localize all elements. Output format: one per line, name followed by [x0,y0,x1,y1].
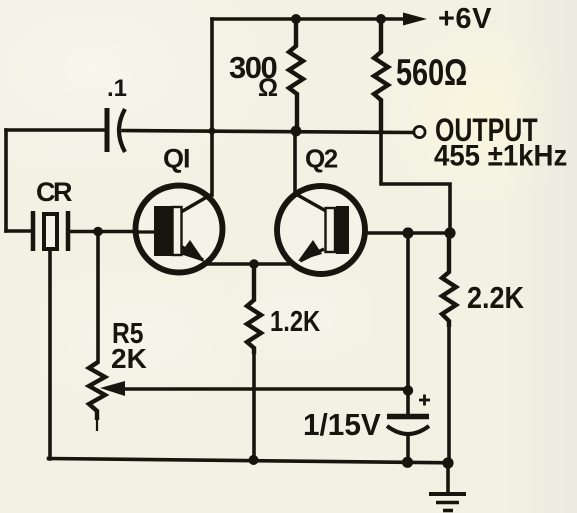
node 300 bottom [291,126,302,137]
svg-text:560Ω: 560Ω [396,53,467,94]
resistor 560 ohm zigzag [374,19,388,133]
node rail-300 [291,14,301,24]
svg-text:.1: .1 [107,75,127,102]
transistor Q2 emitter arrow [298,240,322,261]
svg-text:2K: 2K [111,343,147,374]
node rail-cap [402,457,413,468]
capacitor .1 curved plate [119,109,125,152]
transistor Q2 base bar black [336,206,349,254]
node rail-1.2K [249,455,259,465]
wire 2.2K bottom lead [447,327,451,464]
wire 560 bottom to output loop [381,133,450,233]
resistor 1.2K zigzag [247,264,261,354]
transistor Q2 circle [277,186,365,274]
electrolytic capacitor top plate [387,414,429,420]
ground symbol [429,494,466,511]
wire electrolytic bottom stub [406,434,410,463]
electrolytic capacitor plus sign [419,395,430,406]
crystal CR left plate [31,211,36,251]
svg-text:455 ±1kHz: 455 ±1kHz [434,139,567,172]
transistor Q2 emitter stroke [300,249,324,261]
wire electrolytic top lead [406,233,410,414]
wire R5 top lead [96,232,100,363]
wire emitter rail Q1-Q2 [204,262,292,266]
svg-text:QI: QI [163,144,190,174]
wire ground stub [446,464,450,492]
transistor Q2 collector stroke [294,193,326,211]
potentiometer R5 wiper arrow [100,381,125,396]
wire crystal right lead to Q1 base [71,230,156,234]
node rail-560 [376,14,386,24]
node Q2 base-2.2K [444,227,455,238]
capacitor .1 left plate [105,108,110,152]
wire Q2 collector riser [293,131,297,191]
electrolytic capacitor curved plate [387,426,429,434]
supply arrow +6V [403,13,427,26]
wire crystal case to bottom rail [48,250,52,459]
crystal CR right plate [66,211,71,251]
node emitter-1.2K [249,259,259,269]
node rail-ground [442,457,453,468]
svg-text:CR: CR [36,177,72,207]
wire output line horizontal [6,128,104,132]
wire left loop vertical [4,130,8,231]
transistor Q1 emitter stroke [182,247,203,260]
transistor Q1 collector stroke [181,194,212,212]
node wiper-cap [403,385,413,395]
wire 1.2K bottom lead [252,354,256,461]
transistor Q1 base bar white stripe [173,207,182,255]
svg-text:1.2K: 1.2K [270,305,320,338]
svg-text:Ω: Ω [258,74,278,102]
resistor 2.2K zigzag [442,233,456,327]
resistor 300 ohm zigzag [289,19,303,131]
wire top rail +6V [212,17,406,21]
wire bottom ground rail [49,459,449,463]
wire Q2 base line [349,231,450,235]
svg-text:2.2K: 2.2K [467,281,524,315]
wire crystal left lead [6,229,30,233]
node Q1 collector-output line [208,127,215,134]
svg-text:+6V: +6V [438,3,492,35]
svg-text:1/15V: 1/15V [303,407,381,442]
node Q2 base-cap [402,227,413,238]
transistor Q1 base bar black [154,206,173,256]
transistor Q1 emitter arrow [180,240,205,262]
transistor Q1 circle [136,186,223,273]
potentiometer R5 zigzag [89,362,105,431]
output terminal circle [414,126,425,137]
transistor Q2 base bar white stripe [326,208,336,252]
transistor Q1 base lead inside [137,230,154,233]
wire R5 wiper line [112,387,408,391]
wire vertical Q1 collector riser [210,19,214,195]
crystal CR body [44,214,57,249]
node CR - R5 [93,227,103,237]
svg-text:Q2: Q2 [305,144,338,174]
